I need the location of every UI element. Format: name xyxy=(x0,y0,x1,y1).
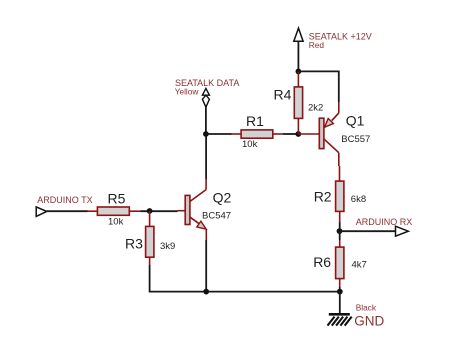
svg-text:GND: GND xyxy=(354,314,384,329)
transistor Q2 base bar xyxy=(185,195,190,224)
wire node E to ARDUINO RX xyxy=(340,230,396,232)
connector SEATALK DATA (arrow + diamond) xyxy=(202,88,209,107)
pin Q1 collector lead / wire to R2 xyxy=(338,153,341,181)
pin R6 bottom lead xyxy=(339,279,341,287)
node B junction (data line / R1 / Q2 collector) xyxy=(203,131,209,137)
svg-text:BC557: BC557 xyxy=(341,134,370,145)
transistor Q2 collector diagonal xyxy=(190,190,206,202)
transistor Q2 emitter diagonal xyxy=(190,217,200,224)
wire R5 to node A xyxy=(141,210,178,212)
label R6 xyxy=(313,254,331,270)
pin R6 top lead xyxy=(339,231,341,247)
transistor Q1 collector diagonal xyxy=(324,139,339,153)
label ARDUINO RX xyxy=(356,217,413,227)
label R1 xyxy=(246,113,264,129)
label R5 xyxy=(108,190,126,206)
wire down to ground symbol xyxy=(339,292,341,314)
label GND xyxy=(354,314,384,329)
label Q1 xyxy=(346,112,365,128)
value 3k9 (R3) xyxy=(160,241,175,252)
svg-text:6k8: 6k8 xyxy=(351,194,366,205)
ground symbol GND xyxy=(328,314,352,325)
label Yellow xyxy=(175,87,200,97)
pin R2 bottom lead xyxy=(339,211,341,222)
transistor Q2 emitter arrow xyxy=(197,221,206,229)
svg-text:BC547: BC547 xyxy=(202,210,231,221)
pin Q2 collector lead xyxy=(205,179,207,190)
resistor R2 xyxy=(336,181,344,211)
svg-text:ARDUINO TX: ARDUINO TX xyxy=(37,195,92,205)
svg-text:Q2: Q2 xyxy=(213,189,232,205)
pin Q1 base lead xyxy=(298,133,319,135)
pin Q1 emitter lead xyxy=(338,102,340,113)
label Red xyxy=(309,40,325,50)
svg-text:10k: 10k xyxy=(108,216,124,227)
label SEATALK +12V xyxy=(309,32,372,42)
svg-text:Yellow: Yellow xyxy=(175,87,200,97)
node E junction (R2 / R6 / RX) xyxy=(337,228,343,234)
wire Q2 collector to node B xyxy=(205,134,207,179)
label SEATALK DATA xyxy=(175,78,239,88)
resistor R5 xyxy=(97,207,129,215)
resistor R3 xyxy=(146,226,154,257)
svg-text:3k9: 3k9 xyxy=(160,241,175,252)
connector SEATALK +12V arrow xyxy=(294,28,303,41)
pin R4 bottom lead xyxy=(297,118,299,134)
transistor Q1 base bar xyxy=(319,118,324,148)
wire +12V arrow to node D xyxy=(297,41,299,71)
label Q2 xyxy=(213,189,232,205)
pin R5 left lead xyxy=(87,210,97,212)
svg-text:Red: Red xyxy=(309,40,325,50)
junction Q2 emitter / ground rail xyxy=(203,289,209,295)
resistor R1 xyxy=(241,130,273,138)
label ARDUINO TX xyxy=(37,195,92,205)
wire R3 to ground rail xyxy=(150,265,340,292)
svg-text:2k2: 2k2 xyxy=(308,103,323,114)
label R2 xyxy=(314,188,332,204)
wire Q2 emitter to ground rail xyxy=(205,240,207,292)
node D junction (+12V / R4 / top rail) xyxy=(296,69,302,75)
junction ground node xyxy=(337,289,343,295)
resistor R6 xyxy=(336,247,344,279)
connector ARDUINO TX arrow xyxy=(36,207,47,217)
connector ARDUINO RX arrow xyxy=(396,226,409,236)
wire R6 to ground junction xyxy=(339,287,341,292)
wire SEATALK DATA down to node B xyxy=(205,107,207,134)
value 2k2 (R4) xyxy=(308,103,323,114)
wire TX net to R5 xyxy=(47,210,88,212)
svg-text:R5: R5 xyxy=(108,190,126,206)
resistor R4 xyxy=(294,87,302,119)
pin R3 top lead xyxy=(149,211,151,226)
wire node B to R1 xyxy=(206,133,232,135)
node A junction (R5/R3/Q2 base) xyxy=(147,208,153,214)
pin R1 right lead xyxy=(273,133,283,135)
value BC547 (Q2) xyxy=(202,210,231,221)
value BC557 (Q1) xyxy=(341,134,370,145)
svg-text:R4: R4 xyxy=(274,87,292,103)
transistor Q1 emitter arrow (points to base) xyxy=(325,119,334,128)
svg-text:R3: R3 xyxy=(125,235,143,251)
svg-text:4k7: 4k7 xyxy=(352,260,367,271)
svg-text:ARDUINO RX: ARDUINO RX xyxy=(356,217,413,227)
label Black xyxy=(356,303,377,313)
svg-text:Q1: Q1 xyxy=(346,112,365,128)
svg-text:R6: R6 xyxy=(313,254,331,270)
label R4 xyxy=(274,87,292,103)
pin R1 left lead xyxy=(232,133,242,135)
pin R3 bottom lead xyxy=(149,257,151,265)
wire R1 to node C xyxy=(283,133,298,135)
value 10k (R5) xyxy=(108,216,124,227)
node C junction (R1 / R4 / Q1 base) xyxy=(295,131,301,137)
transistor Q1 emitter diagonal xyxy=(332,113,339,121)
value 10k (R1) xyxy=(242,139,258,150)
svg-text:R1: R1 xyxy=(246,113,264,129)
wire top rail to Q1 emitter xyxy=(298,71,338,102)
pin R4 top lead xyxy=(297,71,299,87)
pin Q2 base lead xyxy=(178,210,186,212)
svg-text:10k: 10k xyxy=(242,139,258,150)
value 4k7 (R6) xyxy=(352,260,367,271)
pin R5 right lead xyxy=(129,210,140,212)
pin Q2 emitter lead xyxy=(205,230,207,240)
svg-text:R2: R2 xyxy=(314,188,332,204)
svg-text:Black: Black xyxy=(356,303,377,313)
value 6k8 (R2) xyxy=(351,194,366,205)
label R3 xyxy=(125,235,143,251)
wire R2 to node E xyxy=(339,222,341,231)
